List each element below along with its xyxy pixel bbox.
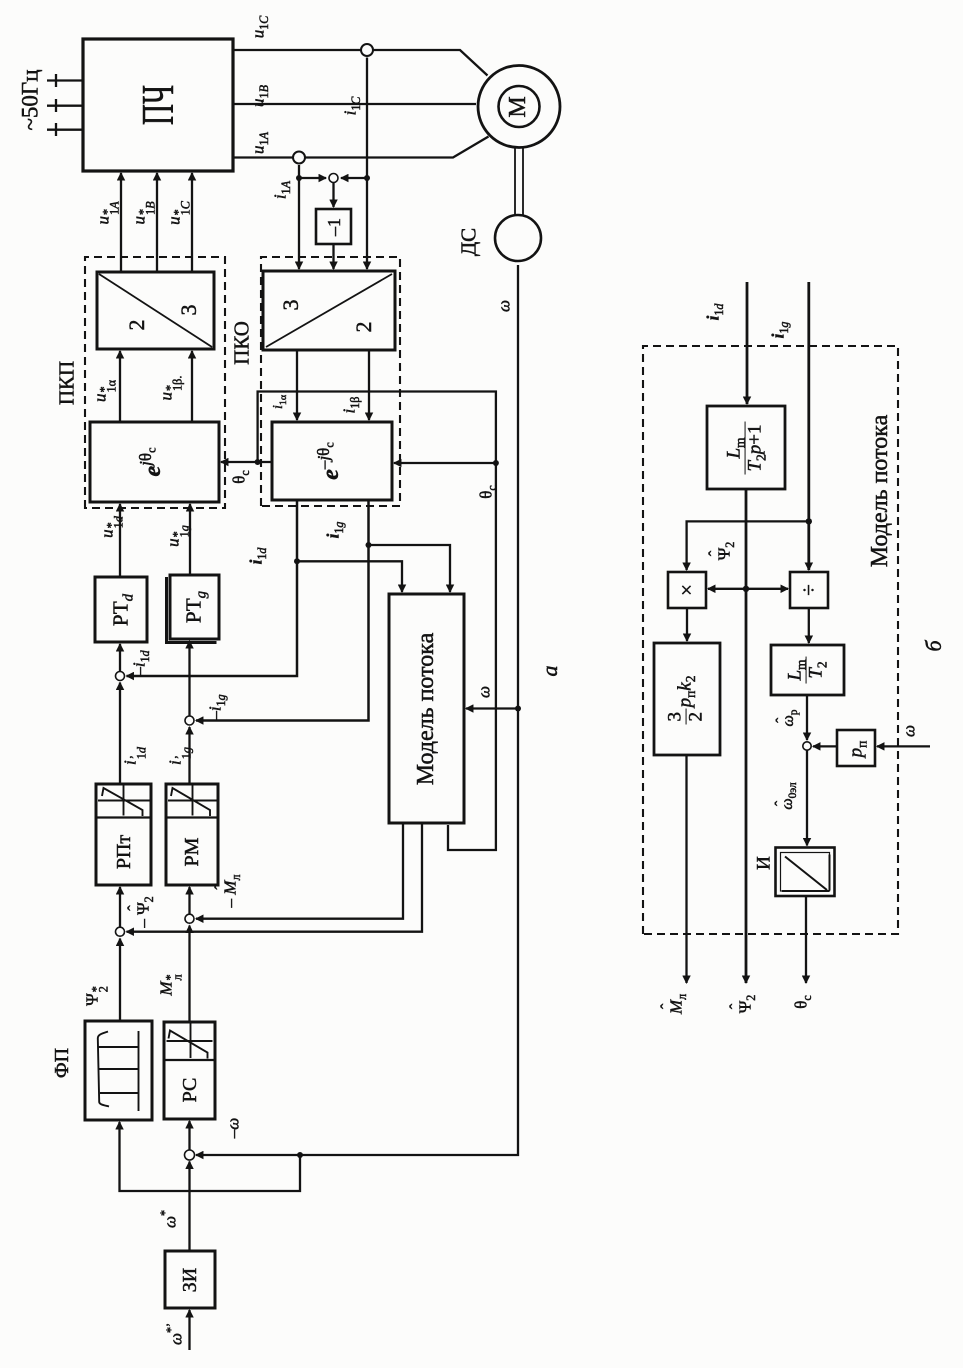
label i'1g [166, 747, 191, 765]
motor M outer circle [478, 66, 560, 148]
2/3 diagonal [99, 274, 212, 347]
wire M-node to RM [188, 887, 190, 914]
wire 50Hz supply stub 2 [47, 99, 83, 112]
label 2 in 2/3 [126, 320, 148, 331]
wire i1C to sum node [341, 177, 367, 179]
block I integrator [776, 848, 835, 897]
label u*1B [130, 201, 155, 224]
block divider [790, 572, 828, 608]
label RPt [114, 835, 134, 869]
label RTd [111, 594, 132, 626]
label i1alpha [272, 395, 286, 409]
wire 50Hz supply stub 3 [47, 74, 83, 87]
I integrator inner frame [781, 853, 830, 892]
label u1B [250, 85, 267, 107]
label i1g at e^-jthc [325, 522, 342, 539]
wire RM to ig-node [188, 727, 190, 784]
RTg shadow border [167, 577, 217, 643]
label e^-jthc [319, 442, 343, 479]
label PKO [232, 321, 253, 365]
wire -1 to 3/2 [332, 244, 334, 269]
label u*1d [98, 516, 123, 538]
block multiplier x [668, 572, 706, 608]
shaft double line [515, 147, 523, 215]
label Psi2* [83, 986, 108, 1006]
dashed box PKP [85, 257, 225, 508]
dashed box PKO [261, 257, 400, 506]
RS divider [164, 1059, 215, 1061]
wire u*1g RTg to e^jthc [189, 504, 191, 575]
label PCh [135, 85, 181, 125]
wire 50Hz supply stub 1 [47, 123, 83, 136]
block -1 inverter [316, 209, 351, 244]
block ZI (setpoint integrator) [165, 1251, 215, 1308]
junction i1d branch [294, 558, 300, 564]
label RS [180, 1078, 200, 1103]
label -Mhatl [222, 875, 239, 908]
label RTg [184, 591, 205, 623]
block 3/2 phase converter (PKO) [263, 271, 395, 350]
label i1beta [341, 397, 358, 414]
speed sensor DS circle [495, 215, 541, 261]
wire Psihat2 to divider [746, 588, 788, 590]
wire Psi-node to RPt [119, 887, 121, 927]
I integrator ramp icon [782, 855, 830, 892]
block RTd (d-axis current regulator) [95, 577, 147, 642]
wire omega-node to integrator [806, 751, 808, 846]
wire Psihat feedback to Psi-node [127, 823, 423, 932]
block RTg (g-axis current regulator) [170, 575, 219, 639]
block PCh (frequency converter) [83, 39, 233, 171]
wire u*1beta e^jthc to 2/3 [191, 351, 193, 422]
wire RS to M-node [188, 926, 190, 1023]
label I integrator [755, 856, 774, 870]
junction omega to flux model [515, 706, 521, 712]
RM regulator icon [168, 785, 217, 816]
3/2 diagonal [266, 274, 392, 347]
label Lm/T2 [786, 656, 827, 683]
label e^jthc [141, 448, 165, 477]
wire omega rail from DS [196, 265, 518, 1155]
label u1C [250, 16, 267, 39]
label multiplier sign [677, 584, 698, 596]
label thc at e^jthc [231, 470, 248, 484]
wire id-node to RTd [119, 644, 121, 671]
junction i1g branch [366, 542, 372, 548]
RPt divider [96, 816, 151, 818]
current sensor on u1A [293, 152, 305, 164]
wire i1g branch to flux model [369, 545, 451, 592]
block 2/3 phase converter (PKP) [97, 272, 214, 349]
wire thc distribution loop [258, 392, 496, 851]
wire Psihat2 to multiplier [708, 588, 746, 590]
wire omega*' input to ZI [188, 1310, 190, 1350]
wire u*1alpha e^jthc to 2/3 [119, 351, 121, 422]
wire u*1d RTd to e^jthc [119, 504, 121, 577]
label -omega [225, 1118, 242, 1139]
wire pn to omega-node [813, 745, 837, 747]
label u*1A [94, 201, 119, 224]
wire multiplier to 3/2pnk2 [686, 608, 688, 641]
wire i1A tap to 3/2 [298, 165, 300, 269]
label -Psihat2 [135, 896, 152, 927]
wire ig-node to RTg [188, 641, 190, 716]
label 3 in 2/3 [178, 305, 200, 316]
wire u*1A from 2/3 to PCh [120, 173, 122, 272]
junction i1g to multiplier [806, 518, 812, 524]
label thc at e^-jthc [478, 485, 495, 499]
wire i1A to sum node [299, 177, 326, 179]
wire i1d from e^-jthc [127, 500, 298, 676]
wire thc into e^-jthc [394, 462, 496, 464]
label omega-hat-0el [780, 782, 796, 809]
label pn [847, 741, 866, 758]
label b [923, 640, 945, 651]
RM divider [166, 816, 218, 818]
label u*1alpha [91, 380, 116, 402]
junction i1A tap [296, 175, 302, 181]
block e^-jthc (vector rotator PKO) [272, 422, 392, 500]
label DS [459, 228, 480, 256]
node i1B sum [329, 174, 338, 183]
label Lm/(T2p+1) [725, 421, 766, 474]
wire thc output [805, 896, 807, 983]
wire thc rail between rotators [221, 461, 272, 463]
node ig sum [185, 716, 194, 725]
label divider sign [799, 584, 820, 596]
wire u*1C from 2/3 to PCh [191, 173, 193, 272]
motor M inner circle [499, 86, 540, 127]
junction omega to FP [297, 1152, 303, 1158]
RPt regulator icon [98, 785, 150, 816]
label -1 [325, 218, 343, 236]
block flux model (part a) [389, 594, 464, 823]
label a [539, 666, 561, 677]
label i1g part b [770, 322, 787, 339]
label omega on rail near DS [496, 300, 513, 312]
node omega sum [185, 1150, 195, 1160]
junction i1C tap [364, 175, 370, 181]
wire u1A phase line [233, 137, 489, 158]
wire i1d branch to flux model [297, 561, 402, 592]
label u*1beta [157, 376, 182, 401]
label flux model part b [868, 415, 892, 567]
wire Mhat feedback to M-node [196, 823, 403, 919]
junction thc rail [255, 459, 261, 465]
junction thc to e^-jthc [493, 460, 499, 466]
label i1A [272, 181, 289, 199]
wire u1B phase line [233, 103, 476, 105]
block Lm/T2 [771, 645, 844, 695]
label u*1C [165, 201, 190, 225]
label 3/2 pn k2 [666, 676, 707, 725]
block FP (function converter) [85, 1021, 152, 1120]
label flux model part a [414, 633, 438, 785]
label ~50Hz supply [19, 69, 42, 130]
wire node to RS [188, 1121, 190, 1150]
wire omega branch to FP [120, 1122, 301, 1191]
node Psi sum [116, 927, 125, 936]
RS regulator icon [167, 1024, 213, 1059]
wire omega* ZI to node [188, 1162, 190, 1252]
block RPt (flux regulator) [96, 784, 151, 885]
block RM (torque regulator) [166, 784, 218, 885]
wire FP out to Psi-node [119, 939, 121, 1022]
wire i1g input part b [807, 282, 810, 570]
wire u1C phase line [233, 50, 488, 76]
wire omega into pn [877, 745, 930, 747]
label -i1d [131, 650, 148, 675]
node id sum [116, 672, 125, 681]
label omega-hat-p [781, 710, 797, 727]
wire node to -1 block [332, 183, 334, 208]
block RS (speed regulator) [164, 1022, 215, 1119]
label i1d at e^-jthc [248, 548, 265, 565]
node omega-p sum [803, 742, 811, 750]
wire divider to Lm/T2 [808, 608, 810, 643]
wire i1d input part b [746, 282, 749, 404]
junction Psihat2 branch [743, 586, 749, 592]
wire i1g branch to multiplier [687, 521, 809, 570]
label omega part b [901, 725, 918, 737]
label FP [52, 1048, 72, 1078]
dashed box flux model detail (part b) [643, 346, 898, 934]
label Mhat output [668, 994, 685, 1014]
label ZI [180, 1268, 200, 1292]
label i'1d [121, 747, 146, 765]
wire u*1B from 2/3 to PCh [156, 173, 158, 272]
block 3/2 pn k2 [654, 643, 720, 755]
FP characteristic icon [98, 1031, 139, 1111]
label omega*' input [168, 1323, 185, 1345]
label RM [182, 838, 202, 867]
wire i1C tap to 3/2 [366, 58, 368, 270]
wire i1g from e^-jthc [196, 500, 369, 721]
wire i1beta 3/2 to e^-jthc [368, 350, 370, 420]
label M motor [506, 96, 530, 117]
label PKP [57, 361, 78, 405]
wire omega into flux model [466, 707, 518, 709]
label omega* [162, 1210, 179, 1228]
block pn [837, 730, 875, 766]
label M*l [157, 974, 182, 995]
wire Mhat output [685, 755, 687, 983]
label i1C [342, 97, 359, 116]
current sensor on u1C [361, 44, 373, 56]
node M sum [185, 914, 194, 923]
wire Lm/T2 to omega-node [806, 695, 808, 740]
label 2 in 3/2 [353, 322, 375, 333]
label u1A [250, 132, 267, 154]
wire Psihat2 main rail [745, 489, 748, 983]
label u*1g [164, 525, 189, 547]
label i1d part b [705, 304, 722, 321]
label thc output [793, 995, 810, 1009]
wire i1alpha 3/2 to e^-jthc [296, 350, 298, 420]
label 3 in 3/2 [280, 300, 302, 311]
label omega at flux model [476, 686, 493, 698]
block Lm/(T2p+1) [707, 406, 785, 489]
label Psihat output [737, 995, 754, 1014]
wire RPt to id-node [119, 683, 121, 785]
label -i1g [207, 694, 224, 719]
block e^jthc (vector rotator PKP) [90, 422, 219, 502]
label Psihat2 inner [716, 542, 733, 561]
